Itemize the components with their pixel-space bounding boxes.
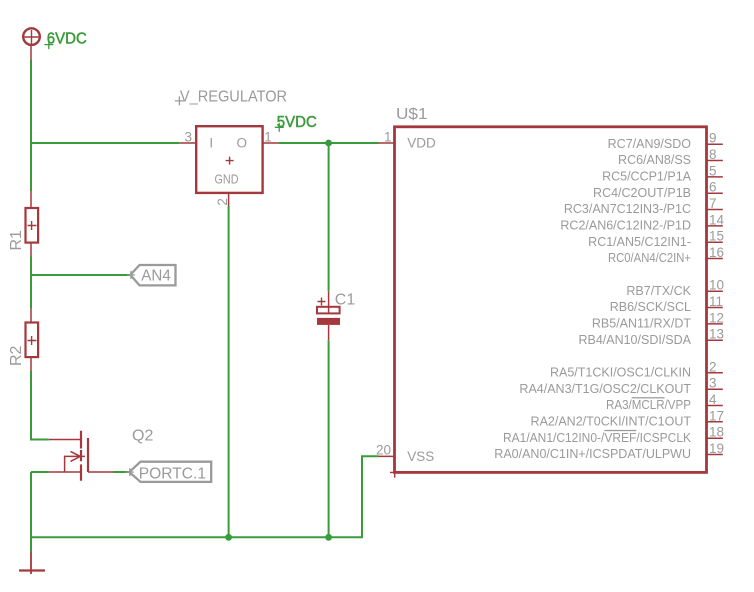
svg-text:RB4/AN10/SDI/SDA: RB4/AN10/SDI/SDA <box>578 333 691 347</box>
svg-text:17: 17 <box>709 408 724 423</box>
svg-text:5VDC: 5VDC <box>277 114 317 131</box>
svg-text:15: 15 <box>709 229 724 244</box>
svg-text:R2: R2 <box>8 345 25 366</box>
svg-text:10: 10 <box>709 278 724 293</box>
svg-text:AN4: AN4 <box>141 268 171 285</box>
svg-text:4: 4 <box>709 392 717 407</box>
svg-text:1: 1 <box>264 130 272 145</box>
svg-text:19: 19 <box>709 441 724 456</box>
svg-text:RC6/AN8/SS: RC6/AN8/SS <box>618 153 691 167</box>
svg-text:20: 20 <box>376 443 391 458</box>
svg-text:C1: C1 <box>335 292 356 309</box>
svg-text:VDD: VDD <box>407 136 436 151</box>
svg-text:RB7/TX/CK: RB7/TX/CK <box>626 284 691 298</box>
svg-text:V_REGULATOR: V_REGULATOR <box>180 88 287 105</box>
svg-text:Q2: Q2 <box>132 428 153 445</box>
svg-text:RA3/MCLR/VPP: RA3/MCLR/VPP <box>606 398 691 412</box>
svg-text:6: 6 <box>709 180 717 195</box>
svg-text:RC3/AN7C12IN3-/P1C: RC3/AN7C12IN3-/P1C <box>564 202 691 216</box>
svg-text:RA0/AN0/C1IN+/ICSPDAT/ULPWU: RA0/AN0/C1IN+/ICSPDAT/ULPWU <box>494 447 691 461</box>
svg-text:16: 16 <box>709 245 724 260</box>
svg-text:7: 7 <box>709 196 717 211</box>
svg-text:2: 2 <box>709 359 717 374</box>
svg-text:5: 5 <box>709 163 717 178</box>
svg-text:RB5/AN11/RX/DT: RB5/AN11/RX/DT <box>592 317 691 331</box>
svg-text:3: 3 <box>184 130 192 145</box>
svg-text:RC4/C2OUT/P1B: RC4/C2OUT/P1B <box>593 186 691 200</box>
svg-text:2: 2 <box>215 198 230 206</box>
svg-text:U$1: U$1 <box>396 106 428 123</box>
svg-text:RA4/AN3/T1G/OSC2/CLKOUT: RA4/AN3/T1G/OSC2/CLKOUT <box>519 382 691 396</box>
svg-text:RC1/AN5/C12IN1-: RC1/AN5/C12IN1- <box>588 235 691 249</box>
svg-text:RB6/SCK/SCL: RB6/SCK/SCL <box>610 300 691 314</box>
svg-text:VSS: VSS <box>407 449 434 464</box>
svg-text:PORTC.1: PORTC.1 <box>139 465 206 482</box>
svg-text:18: 18 <box>709 425 724 440</box>
svg-text:RC7/AN9/SDO: RC7/AN9/SDO <box>608 137 692 151</box>
svg-text:11: 11 <box>709 294 723 309</box>
svg-text:RA1/AN1/C12IN0-/VREF/ICSPCLK: RA1/AN1/C12IN0-/VREF/ICSPCLK <box>503 431 692 445</box>
svg-text:RC5/CCP1/P1A: RC5/CCP1/P1A <box>602 170 692 184</box>
svg-text:1: 1 <box>384 130 392 145</box>
svg-text:3: 3 <box>709 376 717 391</box>
svg-text:RC2/AN6/C12IN2-/P1D: RC2/AN6/C12IN2-/P1D <box>560 219 691 233</box>
svg-text:RA5/T1CKI/OSC1/CLKIN: RA5/T1CKI/OSC1/CLKIN <box>550 366 691 380</box>
svg-text:RC0/AN4/C2IN+: RC0/AN4/C2IN+ <box>608 251 691 265</box>
svg-text:12: 12 <box>709 310 724 325</box>
svg-text:14: 14 <box>709 212 725 227</box>
svg-text:13: 13 <box>709 327 724 342</box>
svg-text:RA2/AN2/T0CKI/INT/C1OUT: RA2/AN2/T0CKI/INT/C1OUT <box>531 415 692 429</box>
svg-text:9: 9 <box>709 131 717 146</box>
svg-text:O: O <box>237 136 248 151</box>
svg-text:8: 8 <box>709 147 717 162</box>
svg-text:GND: GND <box>215 172 239 186</box>
svg-text:I: I <box>209 136 213 151</box>
svg-text:R1: R1 <box>8 230 25 251</box>
